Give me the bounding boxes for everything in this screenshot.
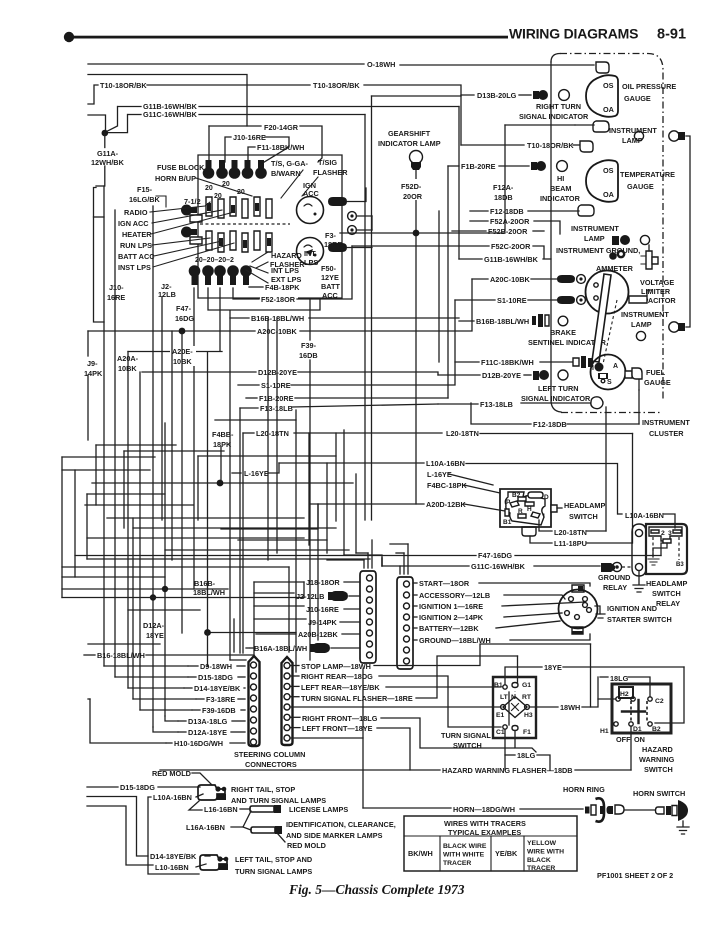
svg-text:F3-18RE: F3-18RE bbox=[206, 695, 235, 704]
ammeter needle to fuel gauge bbox=[592, 274, 611, 362]
wire vertical x230 bbox=[229, 311, 231, 660]
wire vertical x198 bbox=[197, 456, 199, 520]
svg-text:B16B-18BL/WH: B16B-18BL/WH bbox=[476, 317, 529, 326]
fuel gauge S contact bbox=[598, 373, 608, 379]
svg-text:G11C-16WH/BK: G11C-16WH/BK bbox=[471, 562, 526, 571]
left strip labels bbox=[188, 665, 198, 667]
svg-text:J10-16RE: J10-16RE bbox=[233, 133, 266, 142]
svg-text:D1: D1 bbox=[633, 726, 642, 733]
svg-text:B16A-18BL/WH: B16A-18BL/WH bbox=[254, 644, 307, 653]
wire F12-18DB bottom row bbox=[471, 403, 531, 424]
svg-text:20OR: 20OR bbox=[403, 192, 423, 201]
wire D12B-20YE row bbox=[142, 371, 256, 373]
svg-text:STARTER SWITCH: STARTER SWITCH bbox=[607, 615, 672, 624]
page header rule and bullet bbox=[64, 26, 686, 43]
wire vertical x215 bbox=[233, 619, 235, 652]
wire J2-12LB bbox=[254, 592, 294, 594]
svg-text:BEAM: BEAM bbox=[550, 184, 572, 193]
indicator circle right turn bbox=[559, 90, 570, 101]
connector bullet D12B bbox=[533, 371, 539, 380]
svg-text:RELAY: RELAY bbox=[603, 583, 627, 592]
wire vertical left edge bbox=[61, 457, 63, 598]
svg-text:HORN RING: HORN RING bbox=[563, 785, 605, 794]
wire G11B-16WH/BK bbox=[118, 106, 141, 108]
svg-text:LEFT FRONT—18YE: LEFT FRONT—18YE bbox=[302, 724, 373, 733]
svg-text:A20D-12BK: A20D-12BK bbox=[426, 500, 466, 509]
svg-text:LIMITER: LIMITER bbox=[641, 287, 671, 296]
label A20E-10BK bbox=[170, 346, 196, 366]
svg-text:D: D bbox=[544, 494, 549, 501]
svg-text:AND SIDE MARKER LAMPS: AND SIDE MARKER LAMPS bbox=[286, 831, 383, 840]
svg-text:PF1001 SHEET 2 OF 2: PF1001 SHEET 2 OF 2 bbox=[597, 871, 673, 880]
wire vertical x115 bbox=[114, 210, 116, 677]
wire vertical x166 bbox=[164, 423, 166, 716]
license lamp bar bbox=[250, 806, 274, 812]
svg-text:OFF: OFF bbox=[616, 735, 631, 744]
svg-text:D14-18YE/BK: D14-18YE/BK bbox=[150, 852, 197, 861]
wire vertical below O label bbox=[372, 95, 462, 97]
svg-text:20–20–20–2: 20–20–20–2 bbox=[195, 257, 234, 264]
svg-text:16RE: 16RE bbox=[107, 293, 125, 302]
connector bullets fuse top row bbox=[203, 160, 267, 179]
svg-text:HORN SWITCH: HORN SWITCH bbox=[633, 789, 685, 798]
svg-text:I: I bbox=[543, 513, 545, 520]
svg-text:TRACER: TRACER bbox=[443, 860, 471, 867]
svg-text:STOP LAMP—18WH: STOP LAMP—18WH bbox=[301, 662, 371, 671]
connector bullet F1B bbox=[531, 162, 537, 170]
svg-text:12LB: 12LB bbox=[158, 290, 176, 299]
wire F47-16DG row bbox=[75, 555, 476, 557]
svg-text:GEARSHIFT: GEARSHIFT bbox=[388, 129, 431, 138]
svg-text:GAUGE: GAUGE bbox=[624, 94, 651, 103]
svg-text:H1: H1 bbox=[600, 728, 609, 735]
wire J10-16RE bbox=[254, 605, 304, 607]
svg-text:J9-: J9- bbox=[87, 359, 98, 368]
wire bullet1 drop bbox=[193, 288, 195, 589]
svg-text:INDICATOR: INDICATOR bbox=[540, 194, 581, 203]
connector fuel gauge right bbox=[625, 371, 632, 378]
svg-text:10BK: 10BK bbox=[173, 357, 192, 366]
knob shaft right bbox=[551, 505, 557, 512]
wire F52-18OR bbox=[233, 288, 259, 299]
svg-text:SIGNAL INDICATOR: SIGNAL INDICATOR bbox=[519, 112, 589, 121]
wire F52D long run bbox=[340, 232, 413, 234]
svg-text:J10-16RE: J10-16RE bbox=[306, 605, 339, 614]
wire F39 vertical bbox=[309, 300, 311, 340]
svg-text:L10A-16BN: L10A-16BN bbox=[153, 793, 192, 802]
wire B16-18BL/WH row bbox=[84, 654, 95, 656]
fuse row 1 bbox=[206, 197, 272, 218]
wire left hook to junction bbox=[88, 115, 106, 130]
wire vertical x104 bbox=[103, 186, 105, 666]
svg-text:OIL PRESSURE: OIL PRESSURE bbox=[622, 82, 676, 91]
svg-text:CLUSTER: CLUSTER bbox=[649, 429, 684, 438]
svg-text:SWITCH: SWITCH bbox=[569, 512, 598, 521]
svg-text:18RE: 18RE bbox=[324, 240, 342, 249]
svg-text:H2: H2 bbox=[620, 691, 629, 698]
bottom tab bbox=[522, 527, 536, 536]
svg-text:C2: C2 bbox=[655, 698, 664, 705]
svg-text:F12-18DB: F12-18DB bbox=[533, 420, 567, 429]
svg-text:L20-18TN: L20-18TN bbox=[446, 429, 479, 438]
svg-text:WIRES WITH TRACERS: WIRES WITH TRACERS bbox=[444, 819, 526, 828]
svg-text:20: 20 bbox=[205, 185, 213, 192]
svg-text:BK/WH: BK/WH bbox=[408, 849, 433, 858]
wire 18YE from TSS top bbox=[505, 667, 542, 684]
svg-text:16DB: 16DB bbox=[299, 351, 318, 360]
diamond bbox=[503, 697, 527, 718]
H2 inner box bbox=[619, 687, 633, 698]
wire L-16YE row bbox=[232, 472, 241, 474]
svg-text:RELAY: RELAY bbox=[656, 599, 680, 608]
ignition ground symbol bbox=[595, 606, 600, 614]
svg-text:F52C-20OR: F52C-20OR bbox=[491, 242, 531, 251]
pointer lines INT/EXT bbox=[252, 252, 268, 262]
connector bullet S1 bbox=[557, 296, 575, 304]
wire A20C row at cluster bbox=[472, 278, 488, 280]
svg-text:AND TURN SIGNAL LAMPS: AND TURN SIGNAL LAMPS bbox=[231, 796, 326, 805]
svg-text:HI: HI bbox=[557, 174, 564, 183]
svg-text:18WH: 18WH bbox=[560, 703, 580, 712]
wire L10A-16BN row bbox=[148, 797, 199, 874]
wire D14-18YE/BK row bbox=[87, 797, 148, 857]
elbow connector oil gauge bottom bbox=[593, 121, 609, 132]
wire vertical x154 bbox=[152, 206, 154, 727]
svg-text:HEATER: HEATER bbox=[122, 230, 152, 239]
svg-text:OA: OA bbox=[603, 190, 615, 199]
wire second top line bbox=[88, 75, 247, 127]
connector bullet B16A bbox=[310, 644, 315, 652]
wire vertical G11C drop bbox=[364, 115, 366, 521]
svg-text:BATT ACC: BATT ACC bbox=[118, 252, 155, 261]
svg-text:F4BC-18PK: F4BC-18PK bbox=[427, 481, 467, 490]
svg-text:G11B-16WH/BK: G11B-16WH/BK bbox=[484, 255, 539, 264]
svg-text:L16A-16BN: L16A-16BN bbox=[186, 823, 225, 832]
svg-text:D13B-20LG: D13B-20LG bbox=[477, 91, 517, 100]
svg-text:CONNECTORS: CONNECTORS bbox=[245, 760, 297, 769]
svg-text:2: 2 bbox=[661, 530, 665, 537]
relay mounting bracket bbox=[632, 524, 646, 576]
connector bullet J2 bbox=[328, 592, 333, 600]
svg-text:H3: H3 bbox=[524, 712, 533, 719]
connector barrel B16B bbox=[532, 316, 536, 325]
svg-text:BATTERY—12BK: BATTERY—12BK bbox=[419, 624, 479, 633]
svg-text:D9-18WH: D9-18WH bbox=[200, 662, 232, 671]
svg-text:D12A-: D12A- bbox=[143, 621, 165, 630]
wire S1-10RE row at cluster bbox=[455, 299, 495, 301]
flasher T/SIG circle bbox=[297, 197, 324, 224]
right tail lamp connector bbox=[198, 785, 226, 800]
bullet connector instrument lamp mid bbox=[612, 236, 619, 245]
connector strip upper-left bbox=[360, 571, 376, 663]
svg-text:L-16YE: L-16YE bbox=[427, 470, 452, 479]
temperature gauge body bbox=[586, 160, 618, 202]
svg-text:T10-18OR/BK: T10-18OR/BK bbox=[527, 141, 574, 150]
svg-text:F39-: F39- bbox=[301, 341, 317, 350]
oil pressure gauge body bbox=[586, 75, 618, 117]
svg-text:F20-14GR: F20-14GR bbox=[264, 123, 299, 132]
wire vertical x178 bbox=[171, 331, 173, 560]
svg-text:F15-: F15- bbox=[137, 185, 153, 194]
horizontals left mesh bbox=[96, 444, 176, 446]
svg-text:SWITCH: SWITCH bbox=[644, 765, 673, 774]
svg-text:J9-14PK: J9-14PK bbox=[308, 618, 338, 627]
svg-text:Fig. 5—Chassis Complete 1973: Fig. 5—Chassis Complete 1973 bbox=[288, 882, 465, 897]
svg-text:D12A-18YE: D12A-18YE bbox=[188, 728, 227, 737]
wire F13-18LB row mid bbox=[240, 407, 258, 409]
svg-text:S: S bbox=[607, 379, 612, 386]
wire TSS right vertex to hazard bbox=[529, 706, 558, 708]
node dot F52D bbox=[413, 230, 420, 237]
fuel gauge circle bbox=[591, 355, 626, 390]
wire G11C-16WH/BK row bbox=[382, 565, 469, 567]
label HORN B/UP pointer bbox=[196, 178, 252, 196]
hazard switch body bbox=[612, 684, 671, 733]
left tail lamp connector bbox=[200, 855, 228, 870]
wire B16B-18BL/WH row bbox=[230, 317, 249, 319]
connector bullet D13B bbox=[533, 91, 539, 99]
fuse block side connectors left bbox=[181, 205, 202, 244]
svg-text:18LG: 18LG bbox=[517, 751, 536, 760]
voltage limiter symbol bbox=[646, 251, 652, 269]
svg-text:18DB: 18DB bbox=[494, 193, 513, 202]
svg-text:VOLTAGE: VOLTAGE bbox=[640, 278, 674, 287]
svg-text:RUN LPS: RUN LPS bbox=[120, 241, 152, 250]
svg-text:H: H bbox=[527, 506, 532, 513]
svg-text:IGNITION AND: IGNITION AND bbox=[607, 604, 657, 613]
svg-text:ACCESSORY—12LB: ACCESSORY—12LB bbox=[419, 591, 490, 600]
wire F52A-20OR row bbox=[470, 220, 488, 222]
svg-text:INSTRUMENT GROUND,: INSTRUMENT GROUND, bbox=[556, 246, 640, 255]
svg-text:F52-18OR: F52-18OR bbox=[261, 295, 296, 304]
svg-text:BLACK WIRE: BLACK WIRE bbox=[443, 843, 487, 850]
svg-text:IDENTIFICATION, CLEARANCE,: IDENTIFICATION, CLEARANCE, bbox=[286, 820, 396, 829]
elbow connector temp gauge top bbox=[580, 141, 593, 152]
wire A20B-12BK bbox=[256, 633, 296, 635]
svg-text:F39-16DB: F39-16DB bbox=[202, 706, 236, 715]
wire G11A down bbox=[104, 133, 106, 148]
svg-text:A20A-: A20A- bbox=[117, 354, 139, 363]
svg-text:F47-16DG: F47-16DG bbox=[478, 551, 512, 560]
wire vertical J2 x168 bbox=[161, 297, 163, 520]
svg-text:INSTRUMENT: INSTRUMENT bbox=[571, 224, 619, 233]
wire F52B-20OR row bbox=[452, 230, 486, 232]
svg-text:TRACER: TRACER bbox=[527, 865, 555, 872]
connector bullets fuse bottom row bbox=[189, 265, 252, 285]
wire L11-18PU bbox=[530, 536, 552, 543]
svg-text:LEFT TAIL, STOP AND: LEFT TAIL, STOP AND bbox=[235, 855, 312, 864]
svg-text:F11-18BK/WH: F11-18BK/WH bbox=[257, 143, 304, 152]
svg-text:LAMP: LAMP bbox=[584, 234, 605, 243]
svg-text:RED MOLD: RED MOLD bbox=[152, 769, 191, 778]
svg-text:LT: LT bbox=[500, 694, 509, 701]
horizontals center field bbox=[198, 455, 336, 457]
lamp circle bbox=[634, 131, 643, 140]
fuse block side bullets right bbox=[328, 188, 372, 252]
svg-text:18YE: 18YE bbox=[544, 663, 562, 672]
bullet connector right margin top bbox=[669, 131, 679, 141]
wire T10 main bbox=[147, 84, 310, 86]
wire F12-18DB row bbox=[470, 210, 488, 212]
ammeter gauge circle bbox=[586, 271, 629, 314]
wire vertical x140 bbox=[139, 372, 141, 710]
wire vertical T10 drop bbox=[460, 95, 462, 145]
svg-text:OA: OA bbox=[603, 105, 615, 114]
wire to oil bottom elbow bbox=[575, 124, 594, 126]
wire F1 to 18LG bbox=[515, 731, 536, 752]
svg-text:T/SIG: T/SIG bbox=[318, 158, 337, 167]
svg-text:TURN SIGNAL LAMPS: TURN SIGNAL LAMPS bbox=[235, 867, 312, 876]
svg-text:INST LPS: INST LPS bbox=[118, 263, 151, 272]
svg-text:T10-18OR/BK: T10-18OR/BK bbox=[313, 81, 360, 90]
wire vertical x182 bbox=[181, 331, 183, 633]
svg-text:SWITCH: SWITCH bbox=[652, 589, 681, 598]
svg-text:G1: G1 bbox=[522, 682, 531, 689]
svg-text:J2-12LB: J2-12LB bbox=[296, 592, 324, 601]
wire L20-18TN at switch bbox=[539, 520, 552, 531]
svg-text:LICENSE LAMPS: LICENSE LAMPS bbox=[289, 805, 348, 814]
svg-text:18BL/WH: 18BL/WH bbox=[193, 588, 225, 597]
svg-text:F13-18LB: F13-18LB bbox=[480, 400, 513, 409]
fuse row 2 bbox=[206, 231, 272, 252]
svg-text:F1: F1 bbox=[523, 729, 531, 736]
ignition labels bbox=[413, 582, 417, 584]
svg-text:INSTRUMENT: INSTRUMENT bbox=[621, 310, 669, 319]
wire G11C-16WH/BK bbox=[128, 114, 141, 116]
svg-text:G11C-16WH/BK: G11C-16WH/BK bbox=[143, 110, 198, 119]
svg-text:RED MOLD: RED MOLD bbox=[287, 841, 326, 850]
svg-text:B3: B3 bbox=[676, 562, 684, 568]
svg-text:S1-10RE: S1-10RE bbox=[261, 381, 291, 390]
wire F52C-20OR row bbox=[352, 245, 489, 247]
svg-text:FLASHER: FLASHER bbox=[313, 168, 348, 177]
wire L16-16BN bbox=[189, 801, 202, 810]
horn ring symbol bbox=[585, 798, 605, 821]
svg-text:RADIO: RADIO bbox=[124, 208, 148, 217]
pointer lines to flasher bbox=[281, 170, 303, 198]
headlamp switch body bbox=[500, 489, 562, 536]
svg-text:F50-: F50- bbox=[321, 264, 337, 273]
wire J9-14PK bbox=[254, 618, 306, 620]
svg-text:FUSE BLOCK: FUSE BLOCK bbox=[157, 163, 205, 172]
svg-text:WIRE WITH: WIRE WITH bbox=[527, 849, 564, 856]
lamp gearshift bbox=[410, 151, 423, 164]
svg-text:START—18OR: START—18OR bbox=[419, 579, 470, 588]
wire IGN ACC drop bbox=[371, 96, 373, 520]
svg-text:G11A-: G11A- bbox=[97, 149, 119, 158]
relay pin header bbox=[649, 527, 682, 541]
svg-text:T/S, G-GA-: T/S, G-GA- bbox=[271, 159, 308, 168]
svg-text:LPS: LPS bbox=[304, 258, 318, 267]
svg-text:16DG: 16DG bbox=[175, 314, 194, 323]
svg-text:IGN ACC: IGN ACC bbox=[118, 219, 149, 228]
svg-text:F4B-18PK: F4B-18PK bbox=[265, 283, 300, 292]
svg-text:L10A-16BN: L10A-16BN bbox=[625, 511, 664, 520]
svg-text:TYPICAL EXAMPLES: TYPICAL EXAMPLES bbox=[448, 828, 521, 837]
svg-text:L11-18PU: L11-18PU bbox=[554, 539, 587, 548]
svg-text:L10A-16BN: L10A-16BN bbox=[426, 459, 465, 468]
horn switch symbol bbox=[656, 800, 690, 834]
svg-text:F12A-: F12A- bbox=[493, 183, 514, 192]
wire D12B row at cluster bbox=[438, 374, 480, 376]
svg-text:LAMP: LAMP bbox=[631, 320, 652, 329]
connector strip lower-left bbox=[249, 656, 260, 746]
svg-text:STEERING COLUMN: STEERING COLUMN bbox=[234, 750, 305, 759]
svg-text:L-16YE: L-16YE bbox=[244, 469, 269, 478]
svg-text:ACC: ACC bbox=[303, 189, 320, 198]
svg-text:F52B-20OR: F52B-20OR bbox=[488, 227, 528, 236]
wire 18LG top label bbox=[600, 676, 608, 678]
elbow connector F13 bbox=[591, 397, 603, 409]
wire A20C-10BK row bbox=[88, 330, 255, 332]
svg-text:WITH WHITE: WITH WHITE bbox=[443, 852, 485, 859]
svg-text:ON: ON bbox=[634, 735, 645, 744]
svg-text:D14-18YE/BK: D14-18YE/BK bbox=[194, 684, 241, 693]
relay internal dashes bbox=[652, 537, 654, 557]
svg-text:TEMPERATURE: TEMPERATURE bbox=[620, 170, 675, 179]
svg-text:YELLOW: YELLOW bbox=[527, 840, 557, 847]
svg-text:B2: B2 bbox=[652, 726, 661, 733]
wire L10A-16BN row bbox=[279, 462, 424, 464]
svg-text:HAZARD: HAZARD bbox=[271, 251, 302, 260]
svg-text:J10-: J10- bbox=[109, 283, 124, 292]
svg-text:IGNITION 1—16RE: IGNITION 1—16RE bbox=[419, 602, 483, 611]
wire bullet2 jog bbox=[208, 288, 320, 310]
svg-text:F47-: F47- bbox=[176, 304, 192, 313]
svg-text:12YE: 12YE bbox=[321, 273, 339, 282]
flasher hazard circle bbox=[297, 238, 324, 265]
svg-text:B16B-: B16B- bbox=[194, 579, 216, 588]
svg-text:F12-18DB: F12-18DB bbox=[490, 207, 524, 216]
svg-text:WIRING DIAGRAMS: WIRING DIAGRAMS bbox=[509, 26, 638, 42]
elbow connector at oil gauge top bbox=[596, 62, 609, 73]
wire F4B-18PK bbox=[249, 286, 263, 288]
wires feeding lower strips from above bbox=[62, 566, 289, 568]
svg-text:TURN SIGNAL: TURN SIGNAL bbox=[441, 731, 491, 740]
wire B16B row at cluster bbox=[459, 320, 474, 322]
stepped wires lower-left bbox=[104, 665, 188, 667]
connector strip upper-right bbox=[397, 577, 413, 669]
svg-text:D13A-18LG: D13A-18LG bbox=[188, 717, 228, 726]
wire F13-18LB row bbox=[292, 404, 438, 407]
svg-text:B/WARN: B/WARN bbox=[271, 169, 301, 178]
svg-text:LEFT TURN: LEFT TURN bbox=[538, 384, 579, 393]
svg-text:A: A bbox=[613, 363, 618, 370]
svg-text:HORN B/UP: HORN B/UP bbox=[155, 174, 196, 183]
wire bracket left bbox=[94, 188, 105, 323]
svg-text:D12B-20YE: D12B-20YE bbox=[482, 371, 521, 380]
fuse block outline bbox=[198, 155, 342, 298]
svg-text:GAUGE: GAUGE bbox=[644, 378, 671, 387]
relay body bbox=[646, 524, 687, 574]
svg-text:14PK: 14PK bbox=[84, 369, 103, 378]
svg-text:O-18WH: O-18WH bbox=[367, 60, 395, 69]
svg-text:BRAKE: BRAKE bbox=[550, 328, 576, 337]
wire vertical G11B drop bbox=[458, 107, 460, 260]
svg-text:F52D-: F52D- bbox=[401, 182, 422, 191]
svg-text:18LG: 18LG bbox=[610, 674, 629, 683]
svg-text:F11C-18BK/WH: F11C-18BK/WH bbox=[481, 358, 534, 367]
wire L20-18TN row bbox=[243, 432, 254, 434]
svg-text:RIGHT REAR—18DG: RIGHT REAR—18DG bbox=[301, 672, 373, 681]
svg-text:3: 3 bbox=[668, 530, 672, 537]
wire horn row bbox=[362, 669, 364, 808]
svg-text:H10-16DG/WH: H10-16DG/WH bbox=[174, 739, 223, 748]
svg-text:LEFT REAR—18YE/BK: LEFT REAR—18YE/BK bbox=[301, 683, 380, 692]
elbow connector temp gauge bottom bbox=[578, 205, 594, 216]
svg-text:IGNITION 2—14PK: IGNITION 2—14PK bbox=[419, 613, 484, 622]
wire C1 down bbox=[504, 730, 506, 770]
